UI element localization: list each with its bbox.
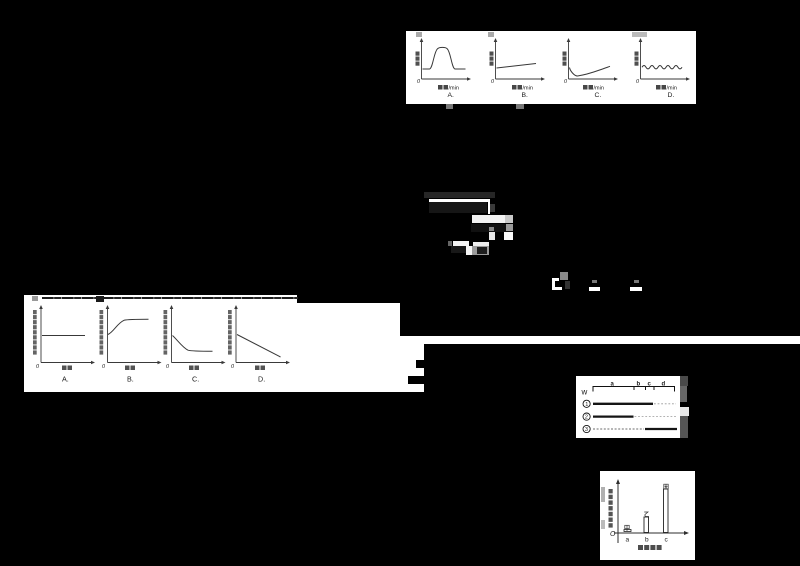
svg-text:/min: /min: [523, 86, 533, 92]
svg-text:C.: C.: [595, 92, 602, 99]
svg-text:0: 0: [166, 364, 170, 370]
svg-text:0: 0: [102, 364, 106, 370]
svg-text:d: d: [662, 382, 666, 388]
svg-text:O: O: [610, 531, 616, 538]
svg-text:C.: C.: [192, 375, 199, 384]
svg-text:0: 0: [564, 79, 568, 85]
svg-text:3: 3: [585, 427, 588, 433]
svg-text:A.: A.: [62, 375, 69, 384]
svg-text:0: 0: [417, 79, 421, 85]
svg-text:/min: /min: [449, 86, 459, 92]
svg-text:w: w: [581, 388, 588, 397]
svg-text:/min: /min: [594, 86, 604, 92]
svg-text:0: 0: [491, 79, 495, 85]
svg-text:B.: B.: [127, 375, 134, 384]
svg-text:1: 1: [585, 402, 588, 408]
svg-text:2: 2: [585, 415, 588, 421]
svg-text:a: a: [626, 537, 630, 544]
svg-text:B.: B.: [522, 92, 529, 99]
svg-text:0: 0: [231, 364, 235, 370]
svg-text:0: 0: [636, 79, 640, 85]
svg-text:c: c: [665, 537, 669, 544]
svg-text:b: b: [637, 382, 641, 388]
svg-text:D.: D.: [258, 375, 265, 384]
svg-text:D.: D.: [668, 92, 675, 99]
svg-text:A.: A.: [448, 92, 455, 99]
svg-text:0: 0: [36, 364, 40, 370]
svg-text:b: b: [645, 537, 649, 544]
svg-text:/min: /min: [667, 86, 677, 92]
